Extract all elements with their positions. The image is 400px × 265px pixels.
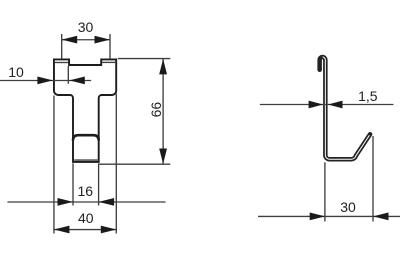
dimension 40: right extension line <box>115 94 117 234</box>
svg-text:1,5: 1,5 <box>358 88 378 104</box>
dimension 66: top extension line <box>118 58 171 60</box>
dimension 16: dimension line <box>7 201 165 203</box>
front view foot inner bottom line <box>74 159 97 161</box>
svg-text:66: 66 <box>148 102 164 118</box>
dimension 30 bottom-right: dimension line <box>258 215 400 217</box>
svg-text:10: 10 <box>8 64 24 80</box>
dimension 40: left extension line <box>53 96 55 234</box>
dimension 30 bottom-right: right arrowhead <box>373 213 389 221</box>
dimension 30 top: right extension line <box>109 34 111 59</box>
dimension 10: extension line (tab inner edge extended) <box>67 66 69 84</box>
dimension 40: dimension line <box>54 229 116 231</box>
dimension 66: up arrowhead <box>159 59 167 75</box>
front view outline <box>54 59 116 162</box>
front view right tab fold line <box>102 61 115 63</box>
side view profile inner white core <box>323 57 370 159</box>
dimension 10: dimension line <box>0 80 91 82</box>
dimension 66: bottom extension line <box>99 163 170 165</box>
side view profile (double-line sheet) <box>320 57 370 159</box>
front view foot bend bar <box>73 135 99 140</box>
dimension 30 top: left extension line <box>61 34 63 59</box>
dimension 66: down arrowhead <box>159 149 167 165</box>
dimension 16: left arrowhead <box>58 198 74 206</box>
dimension 30 top: dimension line <box>62 39 110 41</box>
dimension 40: left arrowhead <box>54 226 69 234</box>
dimension 16: left extension line <box>72 163 74 205</box>
dimension 10: left-pointing arrowhead <box>69 77 85 85</box>
dimension 30 bottom-right: right extension line <box>372 136 374 222</box>
svg-text:40: 40 <box>78 210 94 226</box>
front view left tab fold line <box>55 62 68 64</box>
dimension 30 bottom-right: left arrowhead <box>310 213 326 221</box>
dimension 1,5: dimension line <box>260 104 394 106</box>
dimension 40: right arrowhead <box>101 226 117 234</box>
dimension 66: dimension line <box>162 59 164 165</box>
dimension 1,5: left arrowhead <box>309 101 324 109</box>
dimension 30 top: left arrowhead <box>62 36 77 44</box>
dimension 1,5: right arrowhead <box>328 101 343 109</box>
dimension 30 top: right arrowhead <box>95 36 111 44</box>
dimension 10: right-pointing arrowhead <box>37 77 53 85</box>
svg-text:30: 30 <box>78 19 94 35</box>
dimension 16: right arrowhead <box>99 198 115 206</box>
svg-text:16: 16 <box>78 183 94 199</box>
svg-text:30: 30 <box>340 199 356 215</box>
dimension 16: right extension line <box>98 163 100 205</box>
dimension 30 bottom-right: left extension line <box>324 162 326 221</box>
